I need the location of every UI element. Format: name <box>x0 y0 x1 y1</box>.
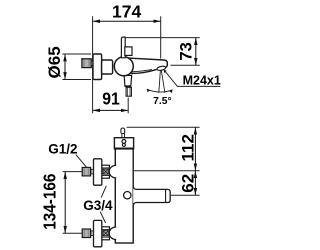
svg-text:91: 91 <box>102 89 120 109</box>
escutcheon / wall flange Ø65 (top view, seen edge-on) <box>93 54 102 80</box>
body column (front view) <box>115 149 133 243</box>
lever stub neck <box>122 134 125 138</box>
dimension 62 line <box>194 171 196 196</box>
connector union between escutcheon and body (top view) <box>102 60 113 74</box>
diverter knob circle on body <box>124 192 131 199</box>
bottom inlet bulge on body <box>109 227 116 240</box>
top inlet bulge on body <box>109 165 116 178</box>
dimension 91 line <box>93 109 129 111</box>
body top cap (front view) <box>114 138 133 149</box>
inner contour line on spout underside <box>132 70 152 72</box>
top escutcheon (front view) <box>94 159 102 185</box>
swivel V line right <box>161 70 165 93</box>
svg-text:7.5°: 7.5° <box>153 96 171 107</box>
downward outlet below body (top view) <box>124 75 132 86</box>
dimension 73 line <box>195 38 197 66</box>
svg-text:112: 112 <box>179 134 198 161</box>
outlet collar band <box>125 85 131 87</box>
M24x1 leader line <box>164 70 221 87</box>
dimension 134-166: extension line top <box>63 171 82 173</box>
G3/4 leader line down (to bottom union) <box>100 212 105 223</box>
dimension 174 line <box>93 20 161 22</box>
svg-text:M24x1: M24x1 <box>183 74 221 88</box>
extension line bottom of 73 (from spout outlet) <box>171 64 200 66</box>
lever base block (top view) <box>125 47 132 56</box>
bottom G3/4 union nut (ribbed) <box>102 227 110 240</box>
dimension 91 right extension line <box>127 98 129 114</box>
svg-text:G3/4: G3/4 <box>83 198 113 213</box>
svg-text:73: 73 <box>177 42 195 60</box>
spout (top view) <box>129 58 168 73</box>
cap bottom thick edge <box>114 147 133 149</box>
G1/2 leader line <box>76 155 87 168</box>
swivel V line left <box>159 70 161 93</box>
svg-text:62: 62 <box>179 174 198 193</box>
dimension 112 line <box>194 127 196 170</box>
G1/2 wall union nut (top view) <box>82 59 91 68</box>
top G1/2 hex nut <box>82 167 90 176</box>
aerator outlet oval on spout underside <box>157 66 166 72</box>
dimension O65 line <box>64 54 66 80</box>
dimension 134-166 line <box>64 172 66 234</box>
dimension 134-166: extension line bottom <box>63 232 82 234</box>
svg-text:134-166: 134-166 <box>39 174 59 230</box>
top G3/4 union nut (ribbed) <box>102 165 110 178</box>
svg-text:174: 174 <box>112 1 141 21</box>
extension line right of 174 (to spout tip) <box>160 16 162 58</box>
svg-text:G1/2: G1/2 <box>48 142 77 157</box>
lever handle bar (top view) <box>121 37 125 58</box>
bottom escutcheon (front view) <box>94 220 102 246</box>
lever stub head (front view) <box>121 128 125 134</box>
dimension O65: extension line bottom <box>62 79 91 81</box>
outlet stub with inner lines <box>126 87 131 96</box>
spout arm end cap line <box>165 190 167 203</box>
7.5 degree arc with arrows <box>147 89 173 92</box>
extension line top of 73 (from lever top) <box>126 37 200 39</box>
top stem <box>91 169 94 174</box>
small circle pair on cap <box>122 140 126 144</box>
bottom stem <box>91 231 94 236</box>
body circle (cartridge housing, top view) <box>114 57 133 76</box>
G3/4 leader line up (to top union) <box>101 186 106 198</box>
bottom G1/2 hex nut <box>82 229 90 238</box>
svg-text:Ø65: Ø65 <box>45 46 64 78</box>
extension line bottom (spout arm axis) <box>171 194 200 196</box>
stem between wall nut and escutcheon (top view) <box>91 61 93 66</box>
spout arm (front view) <box>133 186 170 206</box>
extension line top of 112 (from lever tip) <box>127 126 200 128</box>
dimension O65: extension line top <box>62 53 91 55</box>
extension line middle (union axis) <box>134 170 200 172</box>
wall line (left extension line for 174 and 91) <box>92 16 94 113</box>
